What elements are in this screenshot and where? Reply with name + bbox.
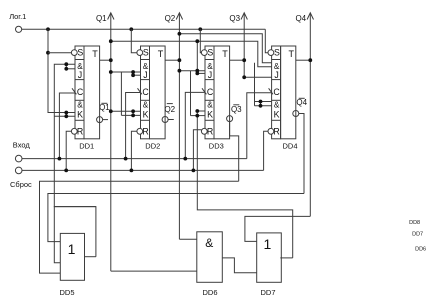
node Q3 output label <box>229 14 240 23</box>
wire Q̄4 overline <box>299 97 305 99</box>
junction Sbros/DD2 R <box>130 169 134 173</box>
junction DD2 J dot b <box>131 73 135 77</box>
junction Sbros/DD3 R <box>192 169 196 173</box>
svg-text:R: R <box>207 127 213 137</box>
junction DD3 K dot b <box>195 114 199 118</box>
junction DD2 Q/net <box>178 58 182 62</box>
wire Q1 bus y=41.2 to DD4 J <box>111 41 272 67</box>
gate DD6 (AND) <box>197 232 223 282</box>
junction Log.1/DD2-S <box>129 27 133 31</box>
wire DD5 output <box>85 256 96 258</box>
svg-text:K: K <box>143 110 149 120</box>
junction DD2 J dot a <box>131 70 135 74</box>
junction DD4 K dot a <box>259 100 263 104</box>
wire DD1 K tie stub <box>65 113 67 117</box>
pin Q̄1 inverter circle <box>97 117 103 123</box>
wire DD1 J tie stub <box>65 64 67 69</box>
junction DD1 S branch <box>46 51 50 55</box>
node Q4 output label <box>295 14 306 23</box>
wire Log.1 bus y=29.3 <box>22 28 265 30</box>
wire DD2 S input from Log.1 <box>131 29 137 52</box>
wire DD3 K descent to DD7 output line <box>197 111 292 258</box>
pin Q̄3 inverter circle <box>227 116 233 122</box>
node Q̄2 label <box>164 105 175 114</box>
svg-text:S: S <box>207 47 213 57</box>
svg-text:DD2: DD2 <box>145 141 160 150</box>
wire DD4 K tie stub <box>260 102 262 106</box>
flip-flop DD4 <box>268 46 296 139</box>
wire Q̄1 overline <box>101 102 107 104</box>
wire DD4 Q output to net <box>296 59 311 61</box>
label DD3 <box>209 141 224 150</box>
wire DD2 Q output to net <box>165 59 179 61</box>
wire DD4 C input from Vhod <box>247 93 272 159</box>
flip-flop DD3 <box>201 46 229 139</box>
svg-text:&: & <box>77 101 83 110</box>
svg-text:&: & <box>143 101 149 110</box>
junction Q2/DD3 J <box>178 69 182 73</box>
wire DD2 K lower <box>121 114 140 116</box>
wire Q2 bus y=33.8 to DD4 J <box>179 34 271 63</box>
wire DD4 R input from Sbros <box>264 131 268 170</box>
junction DD3 J dot a <box>195 69 199 73</box>
svg-text:DD3: DD3 <box>209 141 224 150</box>
junction DD2 K dot b <box>131 114 135 118</box>
wire DD1 S input from Log.1 <box>48 29 75 112</box>
gate DD7 (OR/1) <box>257 233 282 282</box>
terminal Vhod <box>15 155 22 162</box>
terminal Log.1 <box>16 26 22 32</box>
junction DD3 K dot a <box>195 109 199 113</box>
node Sbros label <box>10 180 32 189</box>
svg-text:J: J <box>78 70 82 80</box>
wire DD2 J tie stub <box>132 72 134 75</box>
wire DD1 J upper / loop to DD5 line <box>54 64 96 257</box>
wire DD4 J line from Q3 <box>244 76 271 78</box>
wire DD2 K upper from Q1 <box>111 110 141 112</box>
pin Q̄2 inverter circle <box>162 117 168 123</box>
wire DD3 S input from Log.1 <box>200 29 201 52</box>
svg-text:&: & <box>207 101 213 110</box>
node Q̄4 label <box>296 98 307 107</box>
junction DD1 K dot a <box>64 111 68 115</box>
svg-text:T: T <box>92 49 98 59</box>
svg-text:K: K <box>207 110 213 120</box>
junction Q1/busC <box>109 39 113 43</box>
wire DD1 R input from Sbros <box>66 131 71 170</box>
arrow Q4 up <box>307 13 313 20</box>
label DD7 (margin) <box>412 232 423 238</box>
wire Q̄3 descent to L1 <box>230 122 239 182</box>
arrow Q1 up <box>108 13 114 20</box>
junction DD1 J dot a <box>64 62 68 66</box>
svg-text:C: C <box>273 87 280 97</box>
arrow Q2 up <box>176 13 182 20</box>
wire L2 Q̄4 bus to DD5 <box>48 194 304 242</box>
node Log.1 label <box>9 12 26 21</box>
wire Q̄4 stub to L2 <box>299 114 304 194</box>
wire DD2 C input from Vhod <box>126 93 141 159</box>
junction Q2/busB <box>178 32 182 36</box>
svg-text:Q1: Q1 <box>99 103 110 112</box>
svg-text:Q3: Q3 <box>229 14 240 23</box>
wire DD2 J upper from Q1 <box>111 71 141 73</box>
svg-text:DD7: DD7 <box>412 232 423 238</box>
terminal Sbros <box>15 167 22 174</box>
svg-text:Q2: Q2 <box>164 105 175 114</box>
svg-text:Q2: Q2 <box>165 14 176 23</box>
wire Q4 net vertical <box>309 14 311 217</box>
junction Vhod/DD2 C <box>124 157 128 161</box>
wire Sbros bus <box>22 169 264 171</box>
svg-text:Сброс: Сброс <box>10 180 32 189</box>
label DD4 <box>282 141 297 150</box>
junction Sbros/DD1 R <box>64 169 68 173</box>
wire DD2 J lower <box>133 74 140 76</box>
wire Q̄3 overline <box>233 104 239 106</box>
svg-text:S: S <box>274 47 280 57</box>
wire DD3 JK loop vertical <box>190 71 192 116</box>
wire Q̄2 stub <box>168 119 174 121</box>
svg-text:Q1: Q1 <box>96 14 107 23</box>
wire DD4 K upper <box>255 101 272 103</box>
wire Q4 line to DD7 input <box>245 216 310 241</box>
junction Log.1/DD3-S <box>198 27 202 31</box>
wire DD3 Q output to net <box>230 59 245 61</box>
wire DD1 K lower <box>54 115 75 117</box>
junction Vhod/DD1 C <box>58 157 62 161</box>
label DD6 <box>202 288 217 297</box>
flip-flop DD1 <box>71 46 99 139</box>
svg-text:DD4: DD4 <box>282 141 297 150</box>
junction Vhod/DD3 C <box>183 157 187 161</box>
node Vhod label <box>13 141 31 150</box>
pin Q̄4 inverter circle <box>293 111 299 117</box>
wire DD3 K lower <box>191 115 206 117</box>
junction Q1/DD2 K <box>109 109 113 113</box>
svg-text:Вход: Вход <box>13 141 31 150</box>
wire DD3 J lower <box>197 72 205 74</box>
svg-text:Q4: Q4 <box>295 14 306 23</box>
svg-text:K: K <box>77 110 83 120</box>
wire DD1 C input from Vhod <box>59 93 75 159</box>
svg-text:Лог.1: Лог.1 <box>9 12 26 21</box>
junction DD4 K dot b <box>259 104 263 108</box>
wire DD6 output to DD7 <box>222 258 256 273</box>
wire Q̄2 overline <box>167 103 173 105</box>
node Q1 output label <box>96 14 107 23</box>
svg-text:C: C <box>77 87 84 97</box>
svg-text:S: S <box>143 47 149 57</box>
node Q2 output label <box>165 14 176 23</box>
svg-text:1: 1 <box>264 236 272 252</box>
wire DD4 JK loop vertical <box>254 63 256 106</box>
wire DD3 J upper from Q2 <box>179 70 205 72</box>
wire DD7 output up <box>280 257 292 259</box>
svg-text:R: R <box>77 127 83 137</box>
junction Q1/DD2 J <box>109 70 113 74</box>
junction DD1 K dot b <box>64 114 68 118</box>
svg-text:T: T <box>222 49 228 59</box>
junction DD3 Q/net <box>242 58 246 62</box>
wire DD1 Q output to net <box>100 59 111 61</box>
wire DD2 R input from Sbros <box>131 131 137 170</box>
svg-text:DD8: DD8 <box>409 220 420 226</box>
flip-flop DD2 <box>137 46 165 139</box>
svg-text:R: R <box>273 127 279 137</box>
junction DD1 J dot b <box>64 67 68 71</box>
wire DD1 J lower <box>66 68 75 70</box>
wire L1 Q̄3 bus to DD5 <box>40 181 239 273</box>
junction Q3/DD4 J <box>242 75 246 79</box>
svg-text:Q4: Q4 <box>296 98 307 107</box>
svg-text:J: J <box>143 70 147 80</box>
svg-text:DD6: DD6 <box>415 246 426 252</box>
label DD7 <box>260 288 275 297</box>
junction DD3 J dot b <box>195 72 199 76</box>
wire Vhod bus <box>22 158 247 160</box>
wire DD3 K upper <box>197 110 205 112</box>
svg-text:C: C <box>207 87 214 97</box>
junction DD1 Q/net <box>109 58 113 62</box>
wire DD1 S stub <box>48 52 71 54</box>
svg-text:K: K <box>274 110 280 120</box>
svg-text:DD7: DD7 <box>260 288 275 297</box>
wire Q2 net vertical <box>178 14 180 240</box>
svg-text:DD5: DD5 <box>59 288 74 297</box>
wire Q2 to DD6 input <box>179 238 196 240</box>
svg-text:DD6: DD6 <box>202 288 217 297</box>
node Q̄1 label <box>99 103 110 112</box>
node Q̄3 label <box>231 105 242 114</box>
label DD8 (margin) <box>409 220 420 226</box>
label DD6 (margin) <box>415 246 426 252</box>
junction Log.1/DD1-S <box>46 27 50 31</box>
wire DD3 R input from Sbros <box>193 130 201 171</box>
junction DD4 Q/net <box>308 58 312 62</box>
label DD2 <box>145 141 160 150</box>
gate DD5 (OR/1) <box>60 233 84 280</box>
wire DD2 JK loop vertical <box>120 72 122 115</box>
wire DD4 S input from Log.1 <box>265 29 268 52</box>
svg-text:T: T <box>288 49 294 59</box>
wire DD3 J feed from Q1 bus <box>196 41 198 73</box>
wire DD4 K lower <box>255 105 272 107</box>
wire Q̄1 stub <box>103 119 108 121</box>
svg-text:1: 1 <box>68 241 76 257</box>
svg-text:C: C <box>142 87 149 97</box>
wire DD2 K tie stub <box>132 111 134 115</box>
junction DD2 K dot a <box>131 109 135 113</box>
wire DD5 feedback line <box>54 207 96 263</box>
svg-text:DD1: DD1 <box>79 141 94 150</box>
wire Q1 to DD6 input <box>111 270 197 272</box>
svg-text:T: T <box>158 49 164 59</box>
svg-text:&: & <box>205 236 213 250</box>
label DD5 <box>59 288 74 297</box>
svg-text:&: & <box>274 101 280 110</box>
svg-text:Q3: Q3 <box>231 105 242 114</box>
wire Q1 net vertical <box>110 13 112 271</box>
svg-text:R: R <box>142 127 148 137</box>
svg-text:S: S <box>77 47 83 57</box>
svg-text:J: J <box>274 70 278 80</box>
arrow Q3 up <box>241 13 247 20</box>
wire Q3 net vertical <box>243 14 245 78</box>
svg-text:J: J <box>208 70 212 80</box>
junction busC/DD3 <box>195 39 199 43</box>
wire DD3 C input from Vhod <box>185 92 205 158</box>
label DD1 <box>79 141 94 150</box>
